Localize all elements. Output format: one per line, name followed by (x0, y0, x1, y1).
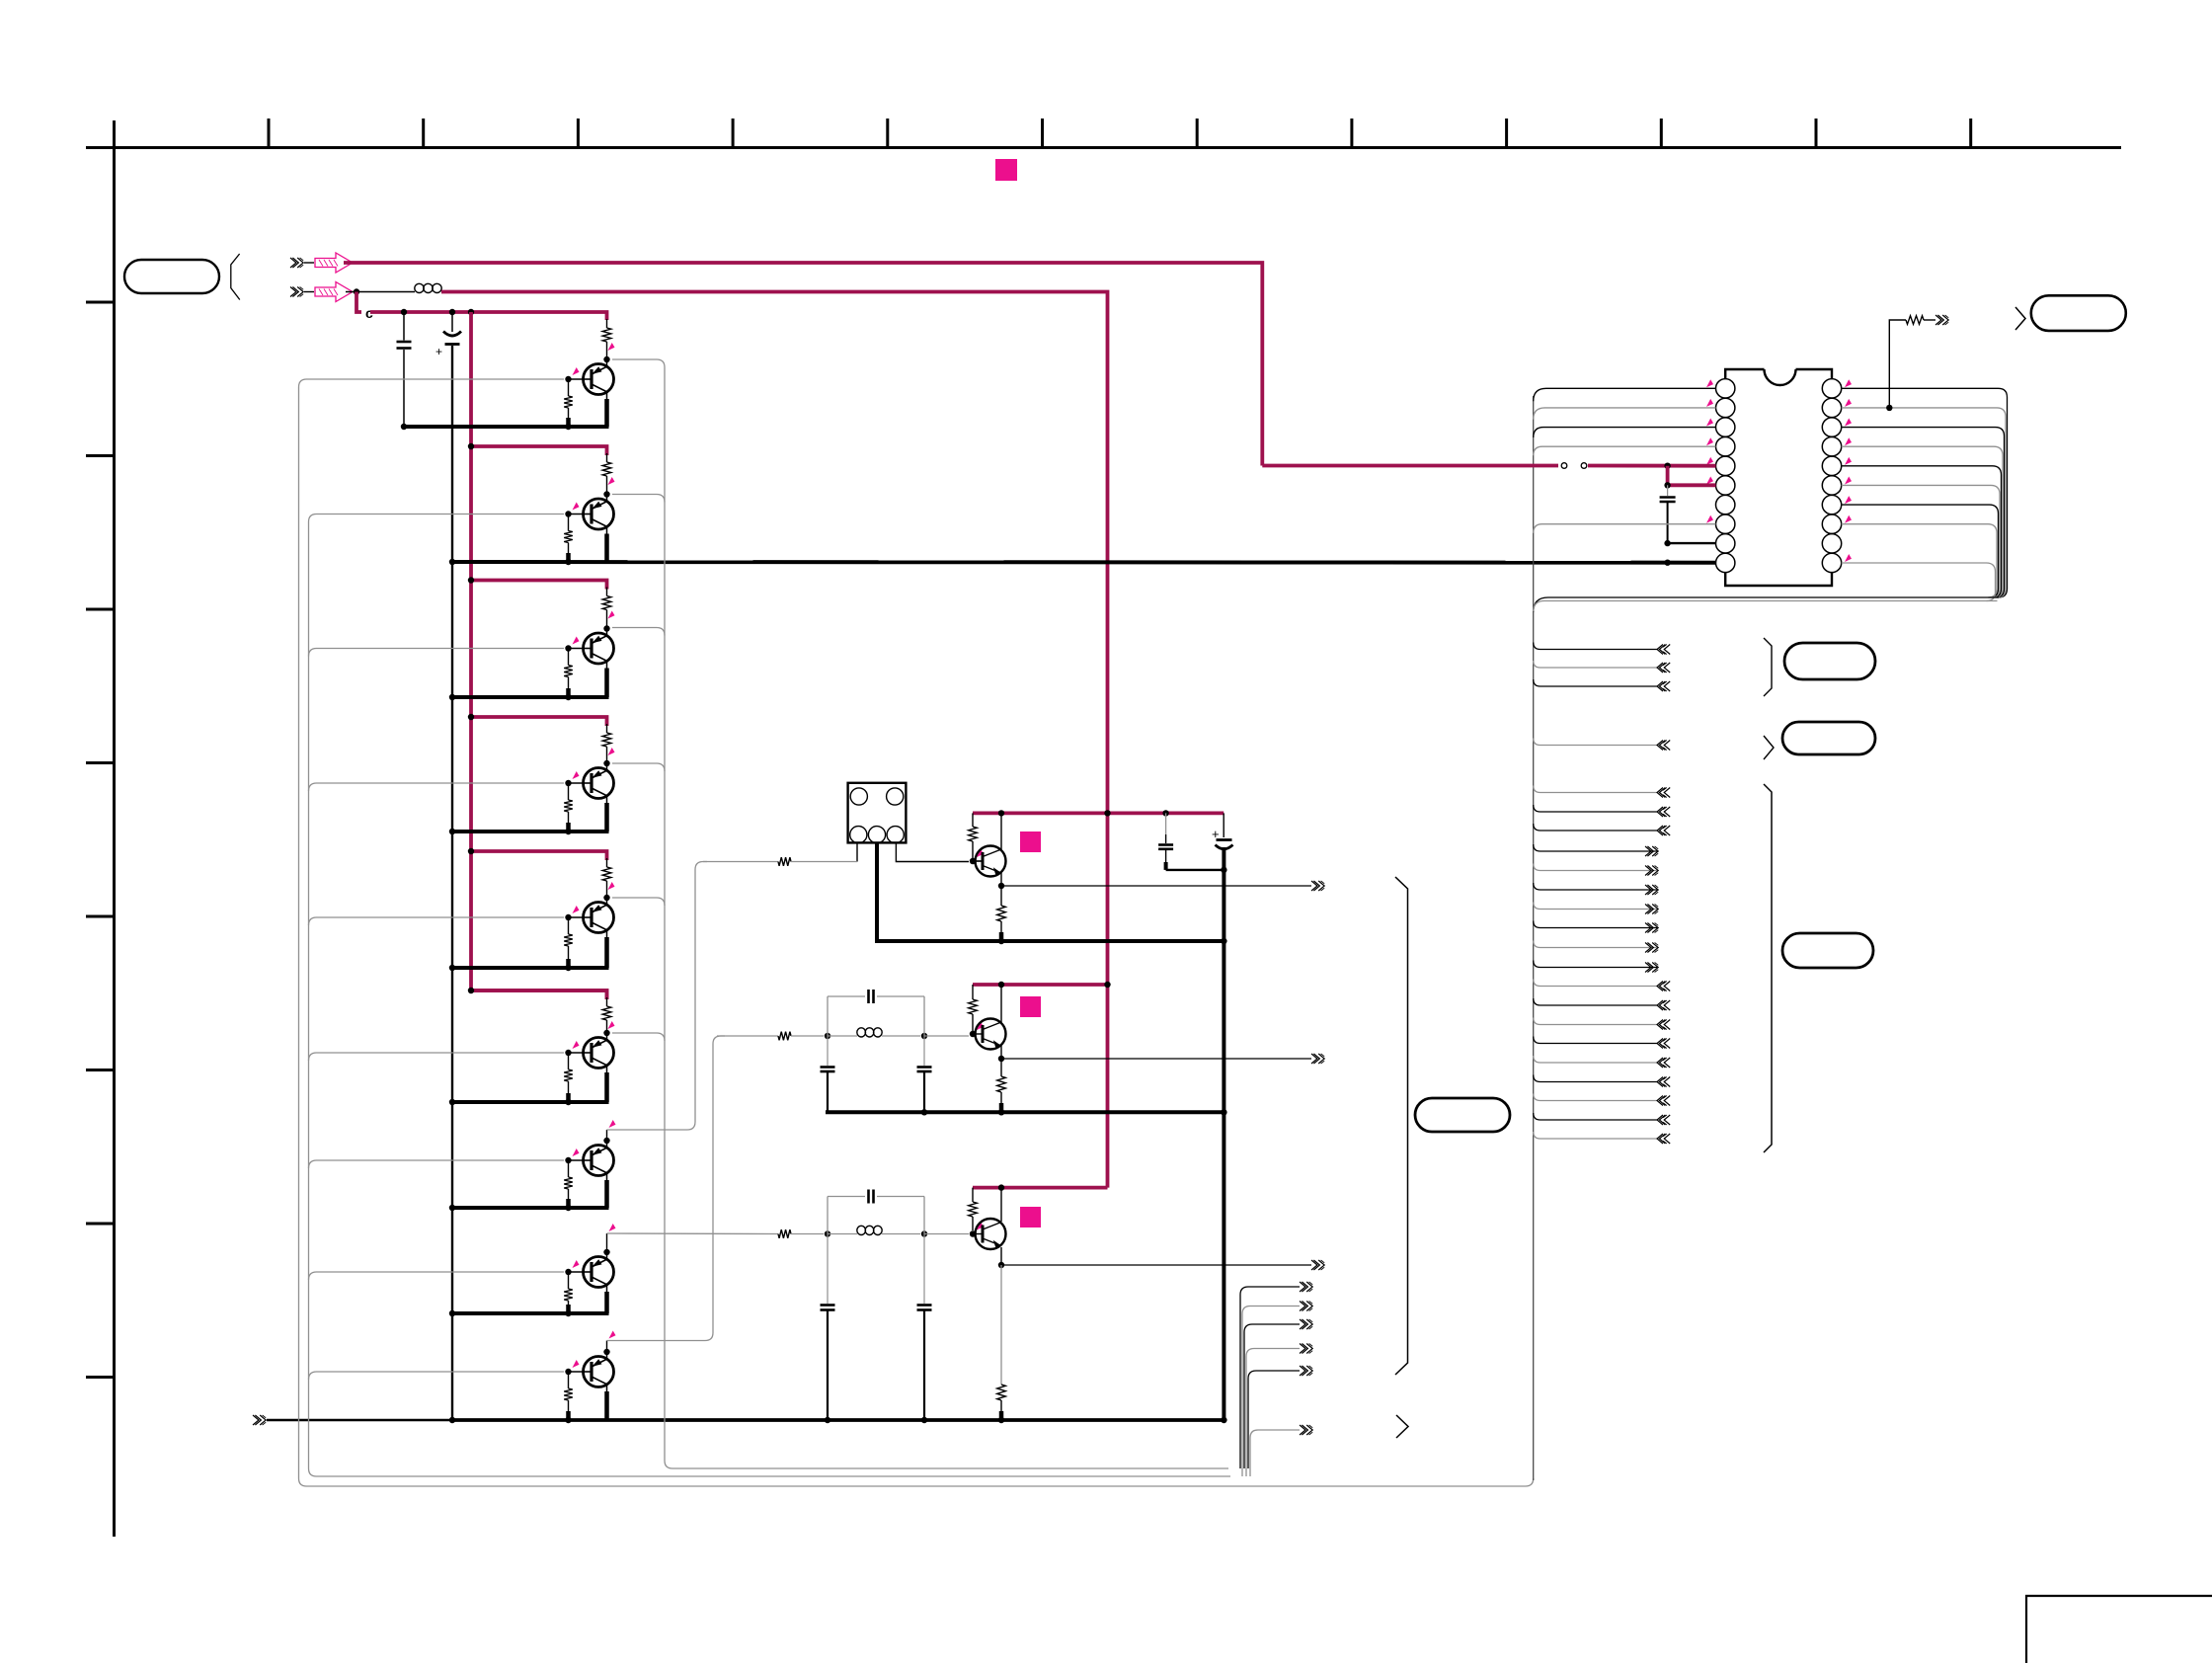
pill label B (1782, 722, 1875, 754)
io chevron (1645, 963, 1651, 973)
node collector Q9 (603, 1349, 609, 1355)
brace (231, 254, 240, 300)
resistor R32 base (568, 652, 570, 666)
io chevron (1657, 826, 1663, 835)
wire base feed (309, 917, 565, 925)
wire base feed (309, 649, 565, 657)
resistor RM2 emitter (1000, 1059, 1002, 1076)
wire inductor to mid vertical magenta (441, 292, 1108, 1188)
transistor Q6 (583, 1038, 614, 1069)
node base Q2 (565, 511, 571, 516)
wire chevron row (1534, 1075, 1657, 1082)
node collector Q1 (603, 356, 609, 362)
input chevron row2 (290, 287, 296, 297)
test point row3 (608, 611, 615, 619)
ruler tick (577, 119, 580, 148)
wire chevron row (1534, 739, 1657, 746)
resistor RM3 emitter (1000, 1265, 1002, 1385)
input chevron bottom left (253, 1415, 259, 1425)
wire M3 emitter (1000, 1247, 1002, 1265)
wire ground trunk x458 (451, 427, 453, 1420)
test point M3 base (977, 1223, 984, 1230)
wire emitter Q7 (606, 1173, 608, 1180)
wire left rail y316 (370, 312, 607, 320)
resistor RM1 emitter (1000, 886, 1002, 906)
wire base feed (309, 1272, 565, 1280)
wire collector stub Q1 (606, 359, 608, 367)
pink arrow row1 (315, 253, 353, 273)
wire chevron row (1534, 980, 1657, 987)
left tick (86, 1223, 115, 1226)
wire M3 emitter out (1001, 1264, 1311, 1266)
capacitor CM1 (1165, 813, 1167, 834)
capacitor CM2b (827, 1036, 829, 1066)
wire M2 collector (1000, 985, 1002, 1022)
ruler tick (1196, 119, 1199, 148)
wire collector feed (612, 898, 665, 906)
left tick (86, 454, 115, 457)
node collector Q6 (603, 1030, 609, 1036)
header pink square (995, 159, 1017, 181)
node M2 base (970, 1031, 976, 1037)
io chevron (1657, 681, 1663, 691)
wire thick vertical x1239 (1222, 847, 1225, 1420)
wire CM1 bottom (1166, 869, 1224, 871)
pink square M3 (1020, 1207, 1041, 1227)
wire collector stub Q5 (606, 898, 608, 906)
wire bundle x704 (607, 862, 708, 1131)
wire X1 right lead to M1 base (896, 842, 969, 861)
capacitor CM2a top branch (827, 996, 829, 1036)
wire IC right pin1 (1842, 388, 2008, 597)
wire base feed (309, 783, 565, 791)
capacitor C2 electrolytic (451, 315, 453, 332)
node M3 base (970, 1230, 976, 1236)
test point base Q6 (573, 1041, 580, 1049)
bracket M outputs (1395, 877, 1408, 1375)
wire collector stub Q9 (606, 1352, 608, 1360)
ruler tick (1350, 119, 1353, 148)
test point M1 base (977, 849, 984, 857)
wire collector feed (612, 763, 665, 771)
wire IC right pin6 (1842, 485, 2000, 597)
io chevron (1657, 663, 1663, 673)
node collector Q4 (603, 760, 609, 766)
out chevron (1300, 1366, 1305, 1376)
transistor M1 (974, 846, 1006, 877)
test point row5 (608, 882, 615, 890)
pin mark (1845, 419, 1852, 427)
out chevron (1300, 1319, 1305, 1329)
resistor R31 collector (606, 588, 608, 596)
wire X1 left lead (856, 842, 858, 861)
wire chevron row (1534, 824, 1657, 831)
pin mark (1845, 554, 1852, 562)
test point base Q1 (573, 367, 580, 375)
pin mark (1845, 399, 1852, 407)
wire chevron row (1534, 661, 1657, 668)
wire emitter Q3 (606, 662, 608, 669)
test point row8 (609, 1224, 616, 1231)
resistor R21 collector (606, 453, 608, 462)
wire M3 collector (1000, 1188, 1002, 1222)
wire pin2R up resistor (1889, 320, 1906, 408)
test point base Q5 (573, 906, 580, 913)
node base Q4 (565, 780, 571, 786)
pin mark (1845, 457, 1852, 465)
rail M2 magenta (973, 983, 1108, 987)
pin mark (1706, 379, 1713, 387)
resonator X1 box (848, 783, 907, 843)
wire IC right pin4 (1842, 446, 2003, 597)
wire IC left pin8 (1534, 524, 1716, 533)
wire emitter Q5 (606, 930, 608, 937)
ruler tick (1041, 119, 1044, 148)
transistor Q3 (583, 633, 614, 664)
input chevron row1 (290, 258, 296, 268)
resistor R82 base (568, 1275, 570, 1289)
wire magenta to pin5 (1262, 464, 1558, 468)
wire chevron row (1534, 883, 1657, 890)
pin mark (1845, 515, 1852, 523)
wire emitter Q2 (606, 527, 608, 534)
wire base lead Q9 (569, 1371, 585, 1373)
wire base lead Q1 (569, 378, 585, 380)
wire emitter Q8 (606, 1285, 608, 1292)
wire base feed (309, 1160, 565, 1168)
wire emitter bus row6 (452, 1100, 609, 1104)
pin mark (1706, 476, 1713, 484)
wire chevron row (1534, 903, 1657, 910)
wire chevron row (1534, 1094, 1657, 1101)
wire IC left pin1 (1534, 388, 1716, 401)
IC pins right (1822, 379, 1841, 398)
node base Q6 (565, 1050, 571, 1056)
io chevron (1657, 1000, 1663, 1010)
rail M3 magenta (973, 1186, 1108, 1190)
node collector Q5 (603, 895, 609, 901)
bracket pill A (1764, 638, 1772, 696)
pin mark (1706, 399, 1713, 407)
io chevron (1657, 1020, 1663, 1030)
io chevron (1645, 943, 1651, 953)
inductor LM3 (828, 1233, 857, 1235)
test point base Q8 (573, 1260, 580, 1268)
resistor RM3 in (778, 1229, 791, 1238)
capacitor CM2 electrolytic (1223, 813, 1224, 837)
resonator X1 circles (850, 788, 867, 805)
wire emitter Q4 (606, 796, 608, 803)
wire emitter bus row7 (452, 1206, 609, 1210)
svg-text:+: + (435, 345, 442, 358)
wire collector feed (612, 1033, 665, 1041)
wire base feed (309, 1053, 565, 1061)
inductor L1 (415, 283, 424, 292)
resistor R51 collector (606, 858, 608, 867)
wire base loop bundle A (299, 379, 1534, 1486)
pink square M1 (1020, 831, 1041, 852)
wire collector feed (612, 628, 665, 636)
wire chevron row (1534, 998, 1657, 1005)
wire row2 to inductor (346, 291, 415, 293)
wire IC right pin10 (1842, 563, 1996, 601)
resistor RM3 bias (972, 1188, 974, 1202)
test point base Q2 (573, 503, 580, 511)
wire IC left pin4 (1534, 446, 1716, 455)
wire chevron row (1534, 844, 1657, 851)
left tick (86, 1376, 115, 1379)
IC pins left (1716, 379, 1735, 398)
node M1 base (970, 858, 976, 864)
wire M1 emitter (1000, 873, 1002, 886)
wire emitter Q6 (606, 1066, 608, 1072)
resistor R62 base (568, 1056, 570, 1069)
ruler tick (886, 119, 889, 148)
test point base Q9 (573, 1360, 580, 1368)
pink square M2 (1020, 996, 1041, 1017)
wire bottom bus y1438 (267, 1419, 454, 1421)
wire M1 base network (703, 861, 778, 863)
wire bottom out rows (1240, 1287, 1300, 1468)
transistor Q8 (583, 1257, 614, 1288)
wire chevron row (1534, 679, 1657, 686)
node base Q7 (565, 1157, 571, 1163)
wire base feed (309, 1372, 565, 1380)
wire emitter Q9 (606, 1385, 608, 1391)
pin mark (1706, 437, 1713, 445)
io chevron (1657, 1096, 1663, 1106)
IC notch (1765, 369, 1796, 385)
resistor RM1 bias (972, 813, 974, 827)
wire emitter bus row8 (452, 1311, 609, 1315)
resistor R61 collector (606, 997, 608, 1006)
wire base lead Q4 (569, 782, 585, 784)
wire collector bundle x673 (612, 359, 1228, 1468)
transistor M2 (974, 1019, 1006, 1050)
left tick (86, 915, 115, 918)
IC U1 body (1725, 369, 1832, 586)
wire chevron row (1534, 941, 1657, 948)
wire collector stub Q3 (606, 629, 608, 637)
wire chevron row (1534, 1113, 1657, 1120)
resistor RM2 in (778, 1032, 791, 1041)
test point base Q7 (573, 1148, 580, 1156)
wire J1 down to rail (356, 292, 361, 313)
connector pill CN top-left (124, 260, 219, 293)
transistor Q1 (583, 364, 614, 395)
test point row1 (608, 343, 615, 351)
wire M3 base network row8 (607, 1232, 779, 1235)
transistor Q9 (583, 1357, 614, 1387)
chevron mark bottom (1396, 1415, 1408, 1438)
node rail-V477 (468, 309, 474, 315)
capacitor CM3a top branch (827, 1197, 829, 1234)
wire IC left pin2 (1534, 408, 1716, 420)
wire collector row8 (606, 1233, 608, 1252)
resistor RM2 bias (972, 985, 974, 999)
out chevron (1300, 1425, 1305, 1435)
bracket group C (1764, 784, 1772, 1152)
mark (2015, 307, 2025, 330)
pink arrow row2 (315, 282, 353, 302)
wire rail branch row2 magenta (471, 446, 607, 455)
wire IC right pin3 (1842, 428, 2005, 597)
wire collector row7 (606, 1130, 608, 1141)
wire collector stub Q7 (606, 1141, 608, 1148)
wire chevron row (1534, 786, 1657, 793)
test point row7 (609, 1120, 616, 1128)
resistor R42 base (568, 786, 570, 800)
out chevron M2 (1311, 1054, 1317, 1064)
io chevron (1645, 905, 1651, 914)
pin mark (1706, 419, 1713, 427)
node rail-C1 (401, 309, 407, 315)
wire base loop bundle B (309, 515, 1231, 1477)
transistor Q7 (583, 1146, 614, 1176)
wire chevron row (1534, 1132, 1657, 1139)
node M1 rail cap (1162, 810, 1168, 816)
wire chevron row (1534, 1056, 1657, 1063)
wire IC left pin3 (1534, 428, 1716, 437)
io chevron (1657, 1115, 1663, 1125)
transistor Q4 (583, 768, 614, 799)
io chevron (1645, 923, 1651, 933)
out chevron top right (1935, 315, 1941, 325)
pill label mid (1415, 1098, 1510, 1132)
resistor R92 base (568, 1375, 570, 1388)
wire M1 collector (1000, 813, 1002, 849)
wire emitter bus row1 (404, 425, 609, 429)
border left (113, 120, 116, 1537)
capacitor CM3c (923, 1234, 925, 1305)
io chevron (1657, 645, 1663, 655)
wire chevron row (1534, 921, 1657, 928)
ruler tick (1815, 119, 1818, 148)
pin mark (1706, 457, 1713, 465)
node rail-C2 (449, 309, 455, 315)
node base Q1 (565, 376, 571, 382)
io chevron (1657, 982, 1663, 991)
ruler tick (422, 119, 425, 148)
wire bundle x722 (607, 1036, 726, 1341)
node pin2R (1886, 405, 1892, 411)
left tick (86, 608, 115, 611)
resistor R72 base (568, 1163, 570, 1177)
wire rail branch row4 magenta (471, 717, 607, 726)
out chevron (1300, 1302, 1305, 1311)
wire chevron row (1534, 643, 1657, 650)
resistor R52 base (568, 920, 570, 934)
test point M2 base (977, 1022, 984, 1030)
pill label A (1784, 643, 1875, 679)
pin mark (1845, 379, 1852, 387)
node collector Q7 (603, 1138, 609, 1144)
pill label top right (2031, 295, 2126, 331)
test point row6 (608, 1021, 615, 1029)
wire base lead Q8 (569, 1271, 585, 1273)
test point row2 (608, 477, 615, 485)
node collector Q3 (603, 625, 609, 631)
transistor M3 (974, 1219, 1006, 1249)
wire collector stub Q4 (606, 763, 608, 771)
wire chevron row (1534, 864, 1657, 871)
wire trunk bundle x1552 (1533, 396, 1535, 1480)
test point base Q4 (573, 771, 580, 779)
connector open circles (1561, 463, 1567, 469)
wire feeder magenta x477 (471, 312, 607, 999)
pin mark (1845, 496, 1852, 504)
left tick (86, 301, 115, 304)
resistor R41 collector (606, 724, 608, 733)
test point base Q3 (573, 637, 580, 645)
out chevron (1300, 1344, 1305, 1354)
wire emitter bus row5 (452, 966, 609, 970)
io chevron (1657, 1039, 1663, 1049)
test point row9 (609, 1331, 616, 1339)
node base Q9 (565, 1369, 571, 1375)
page corner box bottom right (2026, 1596, 2212, 1663)
wire chevron row (1534, 1018, 1657, 1025)
wire emitter bus row2 (452, 560, 1717, 565)
wire IC right pin8 (1842, 524, 1997, 597)
left tick (86, 1069, 115, 1071)
wire magenta to pin6 (1668, 466, 1716, 486)
node collector Q8 (603, 1249, 609, 1255)
io chevron (1645, 846, 1651, 856)
wire chevron row (1534, 805, 1657, 812)
wire chevron row (1534, 1037, 1657, 1044)
ruler tick (1660, 119, 1663, 148)
wire base lead Q5 (569, 916, 585, 918)
wire pin9 (1668, 542, 1716, 544)
pin mark (1706, 515, 1713, 523)
wire rail branch row3 magenta (471, 581, 607, 590)
wire rail branch row6 magenta (471, 990, 607, 999)
inductor LM2 (828, 1035, 857, 1037)
wire IC return line (1534, 597, 1999, 612)
wire base lead Q2 (569, 514, 585, 515)
io chevron (1657, 788, 1663, 798)
node J1 (354, 288, 359, 294)
ruler tick (1505, 119, 1508, 148)
capacitor CM2c (923, 1036, 925, 1066)
wire emitter bus row3 (452, 695, 609, 699)
io chevron (1645, 866, 1651, 876)
wire collector stub Q2 (606, 495, 608, 503)
wire M2 emitter (1000, 1046, 1002, 1059)
transistor Q2 (583, 499, 614, 529)
wire base lead Q6 (569, 1052, 585, 1054)
out chevron M3 (1311, 1260, 1317, 1270)
capacitor C IC (1667, 485, 1669, 496)
resistor R11 collector (606, 319, 608, 328)
ruler tick (268, 119, 271, 148)
io chevron (1657, 1077, 1663, 1087)
io chevron (1657, 1134, 1663, 1144)
io chevron (1657, 807, 1663, 817)
mark pill B (1764, 736, 1774, 759)
wire emitter bus row4 (452, 830, 609, 833)
left tick (86, 761, 115, 764)
resistor RM1 base (778, 857, 791, 866)
io chevron (1657, 1058, 1663, 1068)
capacitor C1 (403, 315, 405, 341)
wire M1 emitter out (1001, 885, 1311, 887)
wire M2 emitter out (1001, 1058, 1311, 1060)
wire IC right pin7 (1842, 505, 1999, 597)
capacitor CM3b (827, 1234, 829, 1305)
node collector Q2 (603, 491, 609, 497)
